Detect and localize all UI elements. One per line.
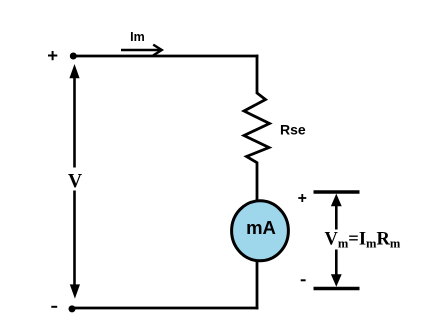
node: negative terminal junction (bottom-left) bbox=[69, 305, 76, 312]
resistor Rse (zigzag) bbox=[244, 93, 270, 163]
wire: right vertical from top wire down to resistor bbox=[256, 55, 259, 94]
wire: bottom horizontal return bbox=[72, 307, 258, 310]
node: positive terminal junction (top-left) bbox=[70, 53, 77, 60]
svg-text:Vm=ImRm: Vm=ImRm bbox=[325, 229, 401, 250]
label: - (meter polarity bottom) bbox=[301, 279, 306, 281]
voltage arrow Vm (double-headed) bbox=[331, 194, 342, 287]
label: + (meter polarity top) bbox=[298, 194, 306, 202]
wire: ammeter to bottom wire bbox=[256, 261, 259, 309]
svg-text:V: V bbox=[68, 171, 82, 192]
svg-text:mA: mA bbox=[246, 217, 276, 238]
label: + (source positive) bbox=[48, 51, 57, 60]
ammeter U1 (mA meter) bbox=[232, 201, 289, 261]
bar: Vm measurement top reference bbox=[314, 190, 360, 193]
svg-text:Im: Im bbox=[130, 30, 145, 44]
svg-text:Rse: Rse bbox=[280, 121, 306, 137]
label: - (source negative) bbox=[51, 306, 57, 308]
wire: resistor to ammeter bbox=[256, 162, 259, 202]
bar: Vm measurement bottom reference bbox=[314, 287, 360, 290]
wire: top horizontal from + node to resistor branch bbox=[73, 55, 258, 58]
voltage arrow V (double-headed, left side) bbox=[69, 64, 80, 299]
current arrow Im bbox=[121, 45, 162, 56]
